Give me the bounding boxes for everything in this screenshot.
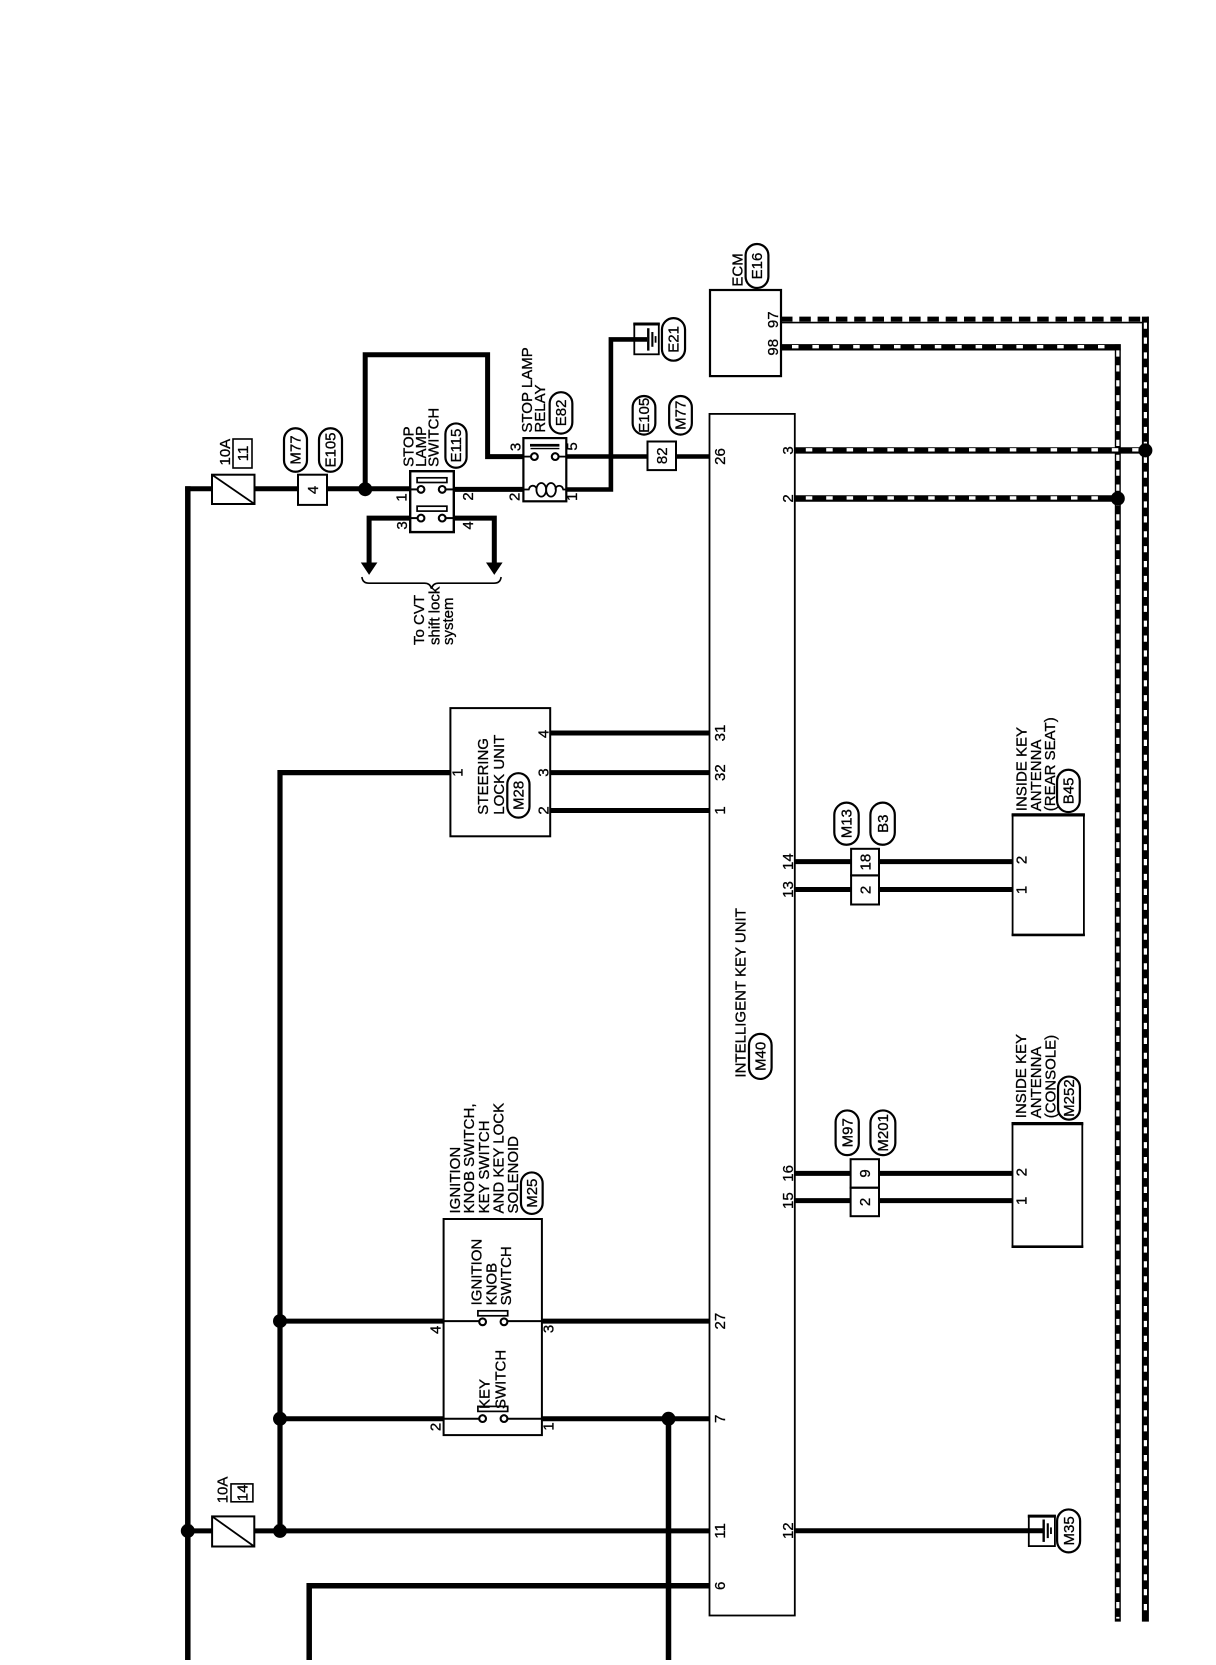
svg-text:1: 1 xyxy=(564,493,581,501)
svg-text:5: 5 xyxy=(564,442,581,450)
svg-text:E105: E105 xyxy=(636,398,653,433)
svg-text:27: 27 xyxy=(712,1313,729,1330)
svg-text:M25: M25 xyxy=(524,1179,541,1208)
svg-text:1: 1 xyxy=(1014,1197,1031,1205)
svg-text:2: 2 xyxy=(1014,1168,1031,1176)
svg-text:1: 1 xyxy=(393,493,410,501)
svg-text:2: 2 xyxy=(507,493,524,501)
CAN wire: ECM pin 97 (dashed over solid) xyxy=(781,322,1149,324)
stop lamp relay box xyxy=(523,438,566,501)
junction dot fuse 14 output xyxy=(273,1524,287,1538)
stop lamp switch pin1-pin2 contacts xyxy=(410,488,418,490)
svg-text:7: 7 xyxy=(712,1415,729,1423)
connector M201 oval xyxy=(870,1110,895,1155)
svg-text:3: 3 xyxy=(535,768,552,776)
wire: IKU pin 12 to ground M35 (thin) xyxy=(795,1528,1043,1533)
inside key antenna (console) box xyxy=(1013,1124,1083,1247)
svg-text:4: 4 xyxy=(305,486,322,494)
relay coil xyxy=(523,489,529,491)
connector box pin 18 xyxy=(851,849,879,876)
connector B3 oval xyxy=(870,803,894,845)
svg-text:ECM: ECM xyxy=(730,253,747,286)
ECM box xyxy=(710,290,781,376)
CAN wire: ECM pin 98 (white-dashed) xyxy=(781,344,1121,350)
svg-text:18: 18 xyxy=(857,854,874,871)
wire: fuse 11 to connector M77/E105 pin 4 xyxy=(255,486,299,491)
relay contact bar xyxy=(530,444,559,447)
stop lamp switch contact bar upper xyxy=(417,478,447,483)
junction dot on wire 7 xyxy=(662,1412,676,1426)
wire: IKU 16 to connector 9 xyxy=(795,1171,851,1176)
wire: steering lock pin 1 feed from column xyxy=(280,773,450,1531)
svg-text:98: 98 xyxy=(765,339,782,356)
svg-text:3: 3 xyxy=(780,446,797,454)
key switch contacts xyxy=(444,1418,479,1420)
stop lamp switch pin3-pin4 contacts xyxy=(410,517,418,519)
svg-text:11: 11 xyxy=(235,446,252,462)
wire: steering lock pin 2 to IKU 1 xyxy=(550,808,709,813)
svg-text:4: 4 xyxy=(460,521,477,529)
svg-text:3: 3 xyxy=(508,443,525,451)
svg-text:RELAY: RELAY xyxy=(532,385,549,433)
ignition knob switch contacts xyxy=(444,1320,479,1322)
connector box pin 9 xyxy=(851,1159,879,1188)
wire: connector 18 to antenna pin 2 xyxy=(879,859,1013,864)
brace under CVT arrows xyxy=(362,577,501,589)
connector box pin 82 xyxy=(648,442,677,471)
svg-text:M201: M201 xyxy=(875,1114,892,1152)
connector box pin 4 xyxy=(298,475,327,505)
wire: relay pin 1 to ground E21 xyxy=(566,339,647,489)
svg-text:To CVT: To CVT xyxy=(411,595,428,645)
svg-text:2: 2 xyxy=(857,1198,874,1206)
svg-text:INTELLIGENT KEY UNIT: INTELLIGENT KEY UNIT xyxy=(732,908,749,1078)
connector M13 oval xyxy=(834,803,858,845)
connector M252 oval xyxy=(1058,1077,1080,1120)
svg-text:E115: E115 xyxy=(448,429,465,463)
connector E21 oval xyxy=(662,318,685,361)
connector box pin 2 xyxy=(851,875,879,904)
svg-text:14: 14 xyxy=(780,853,797,870)
svg-text:12: 12 xyxy=(780,1522,797,1539)
svg-text:STEERING: STEERING xyxy=(475,738,492,815)
wire: IKU pin 6 corner down xyxy=(309,1586,709,1660)
connector box pin 2 (console) xyxy=(851,1188,879,1217)
svg-text:M40: M40 xyxy=(753,1042,770,1071)
svg-text:M35: M35 xyxy=(1061,1516,1078,1545)
svg-text:15: 15 xyxy=(780,1192,797,1209)
wire: connector 4 to junction xyxy=(327,486,411,491)
svg-text:4: 4 xyxy=(535,730,552,738)
wire: fuse 14 to IKU pin 11 (thin) xyxy=(279,1528,710,1533)
wire: column to fuse 14 xyxy=(188,1528,213,1533)
connector M77 oval (second) xyxy=(669,396,692,435)
wire: main feed row to fuse 11 xyxy=(185,486,212,491)
M25 assembly box xyxy=(444,1219,542,1435)
steering lock unit box M28 xyxy=(450,708,550,836)
fuse 11 number box xyxy=(233,439,252,468)
svg-text:13: 13 xyxy=(780,881,797,898)
ground E21 symbol xyxy=(634,324,659,354)
wire: column to ignition knob switch pin 4 xyxy=(277,1319,444,1324)
connector M97 oval xyxy=(836,1110,859,1155)
ground M35 symbol xyxy=(1029,1516,1055,1546)
svg-text:4: 4 xyxy=(428,1326,445,1334)
wire: IKU 15 to connector 2 xyxy=(795,1198,851,1203)
key switch contact bar xyxy=(478,1406,508,1411)
connector M35 oval xyxy=(1057,1509,1080,1552)
svg-text:32: 32 xyxy=(712,764,729,781)
stop lamp switch contact bar lower xyxy=(417,506,447,511)
wire: steering lock pin 3 to IKU 32 xyxy=(550,770,709,775)
svg-text:B45: B45 xyxy=(1061,778,1078,805)
svg-text:E16: E16 xyxy=(749,253,766,280)
arrowhead left xyxy=(361,563,378,575)
svg-text:2: 2 xyxy=(1014,856,1031,864)
svg-text:11: 11 xyxy=(712,1523,729,1539)
wire: connector 82 to IKU pin 26 xyxy=(676,454,710,459)
svg-text:SOLENOID: SOLENOID xyxy=(505,1136,522,1214)
svg-text:26: 26 xyxy=(712,448,729,465)
fuse 14 number box xyxy=(231,1484,253,1502)
connector E82 oval xyxy=(550,392,573,433)
wire: IKU 14 to connector 18 xyxy=(795,859,851,864)
fuse 10A #14 xyxy=(212,1516,254,1546)
svg-text:3: 3 xyxy=(541,1325,558,1333)
wire: stop lamp switch pin 2 to relay pin 2 xyxy=(454,487,524,492)
svg-text:14: 14 xyxy=(234,1485,251,1502)
svg-text:1: 1 xyxy=(1014,886,1031,894)
junction dot battery column at fuse 14 xyxy=(181,1524,195,1538)
wire: relay pin 5 to connector 82 xyxy=(566,454,647,459)
svg-text:2: 2 xyxy=(535,806,552,814)
wire: connector 9 to console antenna pin 2 xyxy=(879,1171,1013,1176)
svg-text:system: system xyxy=(440,597,457,645)
wire: junction 7 vertical down xyxy=(666,1419,672,1660)
inside key antenna (rear seat) box xyxy=(1013,815,1084,935)
svg-text:E82: E82 xyxy=(553,400,570,427)
svg-text:2: 2 xyxy=(857,886,874,894)
wire: junction up-over to stop lamp relay pin 3 xyxy=(365,355,523,488)
svg-text:(CONSOLE): (CONSOLE) xyxy=(1042,1035,1059,1118)
svg-text:82: 82 xyxy=(654,447,671,464)
svg-text:E105: E105 xyxy=(323,432,340,467)
svg-text:LOCK UNIT: LOCK UNIT xyxy=(491,735,508,815)
svg-text:SWITCH: SWITCH xyxy=(426,408,443,467)
ignition knob switch contact bar xyxy=(478,1311,508,1316)
svg-text:6: 6 xyxy=(712,1582,729,1590)
svg-text:1: 1 xyxy=(712,806,729,814)
svg-text:1: 1 xyxy=(541,1422,558,1430)
wire: key switch pin 1 to IKU 7 xyxy=(542,1416,710,1421)
svg-text:M77: M77 xyxy=(288,435,305,464)
connector E16 oval xyxy=(746,244,769,288)
svg-text:KEY: KEY xyxy=(477,1379,494,1409)
svg-text:M77: M77 xyxy=(673,401,690,430)
svg-text:10A: 10A xyxy=(217,439,234,466)
wire: connector 2 to console antenna pin 1 xyxy=(879,1198,1013,1203)
wire: column to key switch pin 2 xyxy=(277,1416,444,1421)
CAN wire vertical left xyxy=(1115,344,1121,1621)
junction dot column at ignition switch feed xyxy=(273,1314,287,1328)
junction dot column at key switch feed xyxy=(273,1412,287,1426)
wire: steering lock pin 4 to IKU 31 xyxy=(550,731,709,736)
svg-text:M28: M28 xyxy=(511,781,528,810)
arrowhead right xyxy=(486,563,503,575)
connector B45 oval xyxy=(1057,770,1080,812)
svg-text:2: 2 xyxy=(780,494,797,502)
stop lamp switch box xyxy=(410,471,454,532)
connector M25 oval xyxy=(521,1172,543,1214)
svg-text:10A: 10A xyxy=(215,1477,232,1504)
wire: connector 2 to antenna pin 1 xyxy=(879,887,1013,892)
svg-text:16: 16 xyxy=(780,1165,797,1182)
connector M28 oval xyxy=(507,773,529,817)
svg-text:1: 1 xyxy=(450,768,467,776)
wire: switch pin 3 down-left to CVT arrow xyxy=(369,518,410,563)
connector E105 oval xyxy=(319,428,342,472)
connector M40 oval xyxy=(749,1034,772,1079)
svg-text:97: 97 xyxy=(765,311,782,328)
relay contacts pins 3-5 xyxy=(523,456,531,458)
svg-text:9: 9 xyxy=(857,1169,874,1177)
svg-text:B3: B3 xyxy=(875,815,892,833)
svg-text:M13: M13 xyxy=(839,809,856,838)
connector E115 oval xyxy=(445,423,466,467)
svg-text:2: 2 xyxy=(460,492,477,500)
intelligent key unit box M40 xyxy=(710,414,795,1616)
connector M77 oval xyxy=(284,428,307,472)
svg-text:SWITCH: SWITCH xyxy=(498,1246,515,1305)
wire: switch pin 4 down-right to CVT arrow xyxy=(454,518,495,563)
connector E105 oval (second) xyxy=(633,396,656,435)
junction dot CAN left xyxy=(1111,492,1125,506)
fuse 10A #11 xyxy=(212,475,255,504)
svg-text:M97: M97 xyxy=(839,1118,856,1147)
junction dot CAN right xyxy=(1138,443,1152,457)
svg-text:E21: E21 xyxy=(666,326,683,353)
wire: ignition knob switch pin 3 to IKU 27 xyxy=(542,1319,710,1324)
svg-text:31: 31 xyxy=(712,725,729,742)
CAN wire: IKU pin 3 xyxy=(795,447,1146,453)
CAN wire: IKU pin 2 xyxy=(795,495,1119,501)
junction dot at stop lamp switch feed xyxy=(358,482,372,496)
svg-text:2: 2 xyxy=(428,1423,445,1431)
svg-text:3: 3 xyxy=(394,521,411,529)
CAN wire vertical right xyxy=(1142,317,1149,1622)
svg-text:M252: M252 xyxy=(1061,1079,1078,1117)
svg-text:SWITCH: SWITCH xyxy=(492,1350,509,1409)
wire: IKU 13 to connector 2 xyxy=(795,887,851,892)
wire: fuse 14 to junction xyxy=(254,1528,278,1533)
wire: battery feed vertical (left) xyxy=(185,486,191,1660)
